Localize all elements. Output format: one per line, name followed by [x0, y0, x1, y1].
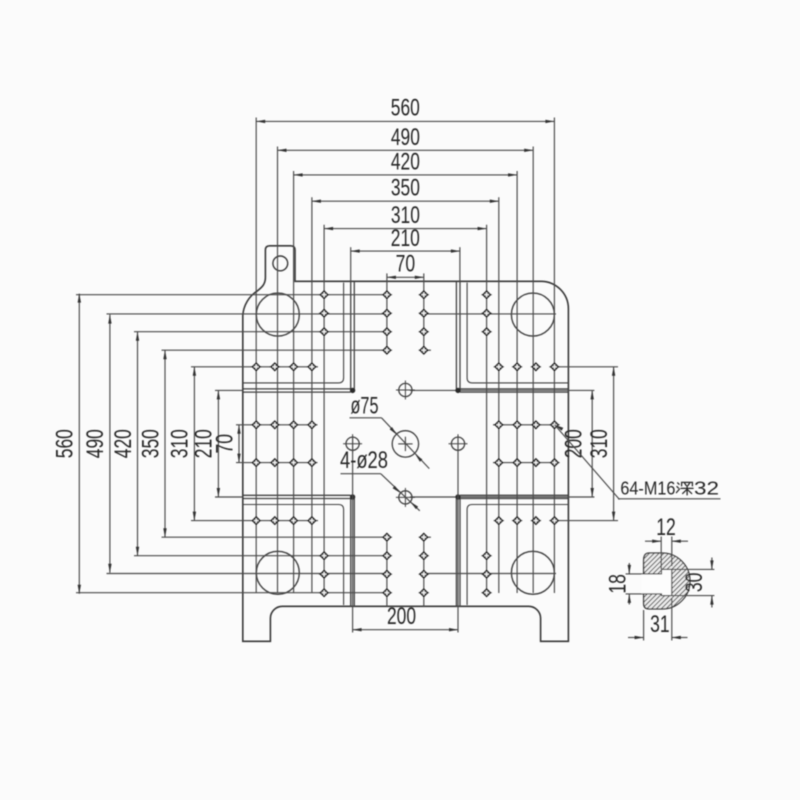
svg-text:4-ø28: 4-ø28 — [340, 447, 388, 474]
svg-text:ø75: ø75 — [351, 393, 379, 420]
svg-text:490: 490 — [82, 429, 109, 458]
svg-text:70: 70 — [396, 251, 416, 278]
svg-text:31: 31 — [650, 611, 670, 638]
svg-text:30: 30 — [681, 573, 708, 593]
svg-text:18: 18 — [605, 574, 632, 594]
svg-text:490: 490 — [391, 124, 420, 151]
svg-text:310: 310 — [167, 429, 194, 458]
svg-text:350: 350 — [391, 175, 420, 202]
svg-text:420: 420 — [391, 149, 420, 176]
svg-text:12: 12 — [656, 514, 676, 541]
svg-text:200: 200 — [561, 429, 588, 458]
svg-text:310: 310 — [586, 429, 613, 458]
svg-text:64-M16: 64-M16 — [620, 478, 675, 498]
svg-text:350: 350 — [137, 429, 164, 458]
svg-text:560: 560 — [391, 95, 420, 122]
svg-text:200: 200 — [387, 603, 416, 630]
svg-text:420: 420 — [110, 429, 137, 458]
svg-text:560: 560 — [52, 429, 79, 458]
svg-text:32: 32 — [694, 478, 719, 498]
svg-text:210: 210 — [391, 225, 420, 252]
svg-text:70: 70 — [212, 434, 239, 454]
